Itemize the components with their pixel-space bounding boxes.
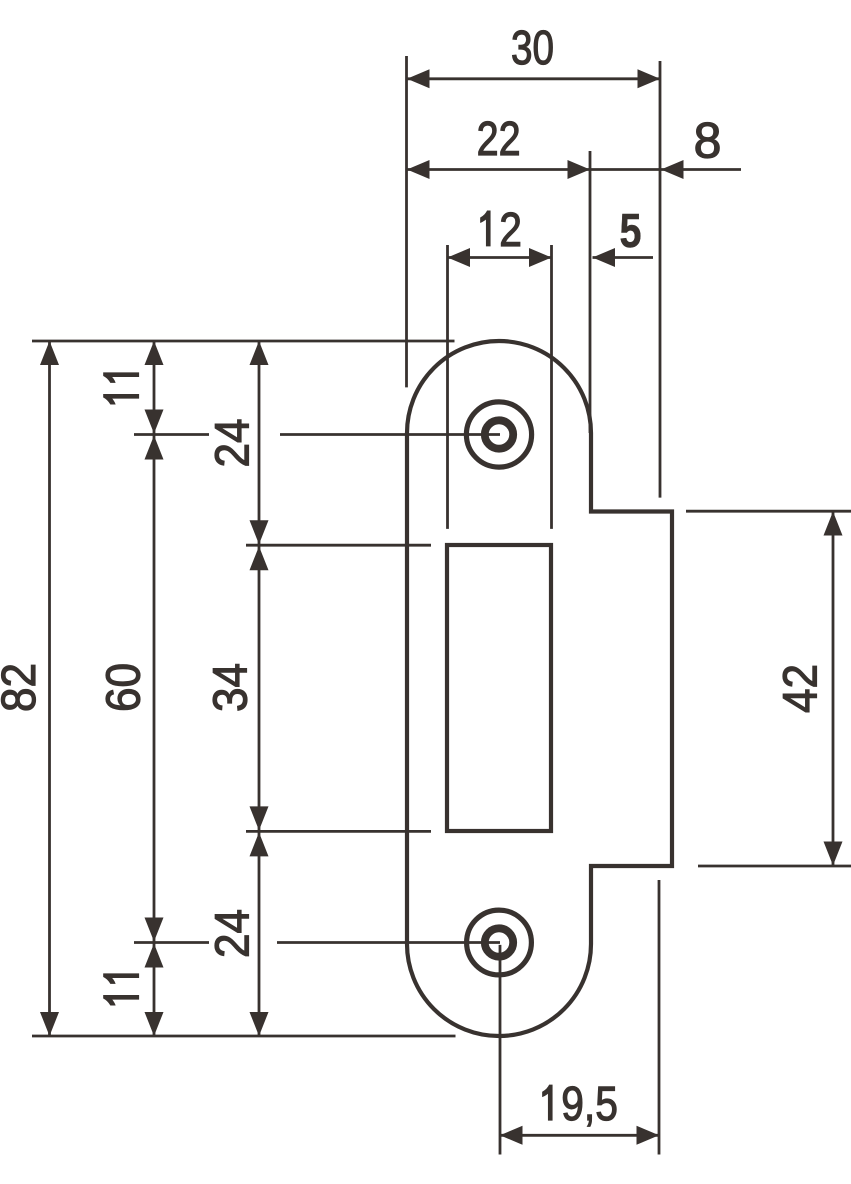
- ext x590: [589, 151, 592, 433]
- label 19,5: [543, 1085, 552, 1120]
- ext x660: [659, 61, 662, 498]
- leader top hole y434.5: [134, 433, 209, 436]
- col 154 arrows: [145, 341, 164, 365]
- svg-text:82: 82: [0, 663, 46, 712]
- cutout: [447, 545, 551, 831]
- dim 42: [832, 511, 835, 866]
- dim 22 + 8: [407, 168, 741, 171]
- 42 up / down: [824, 512, 843, 536]
- svg-text:60: 60: [97, 663, 151, 712]
- 22 left / right: [407, 160, 430, 179]
- ext x551.5: [550, 245, 553, 529]
- label 12: [481, 211, 490, 246]
- svg-text:24: 24: [206, 419, 260, 468]
- ext y511 right: [686, 510, 851, 513]
- svg-text:2: 2: [499, 203, 522, 257]
- svg-text:22: 22: [477, 112, 521, 166]
- 19.5 left / right: [500, 1126, 523, 1145]
- top hole: [466, 402, 531, 467]
- leader bottom hole y942.5: [134, 941, 209, 944]
- label 11 bottom: [104, 974, 139, 1005]
- dim 82: [48, 341, 51, 1036]
- svg-text:42: 42: [774, 664, 828, 713]
- dim 30: [407, 77, 660, 80]
- ext cutout bottom y831: [246, 830, 431, 833]
- label 11 top: [104, 373, 139, 404]
- dim 11/60/11: [153, 341, 156, 1036]
- plate outline: [407, 341, 672, 1036]
- 8 arrow at 660 pointing left: [661, 160, 684, 179]
- dim 5: [593, 256, 654, 259]
- svg-text:34: 34: [204, 663, 258, 712]
- 12 left / right: [448, 248, 471, 267]
- svg-text:8: 8: [694, 113, 722, 169]
- ext cutout top y545: [246, 544, 431, 547]
- ext x407: [405, 56, 408, 387]
- svg-text:30: 30: [511, 21, 554, 75]
- ext y866 right: [698, 865, 851, 868]
- bottom hole: [467, 910, 532, 975]
- ext line bottom y1036: [32, 1035, 456, 1038]
- ext line top y341: [32, 340, 455, 343]
- col 259 arrows: [250, 341, 269, 365]
- svg-text:5: 5: [620, 204, 642, 258]
- 5 arrow at 592.5 pointing left: [593, 248, 616, 267]
- dim 24/34/24: [258, 341, 261, 1036]
- dim 19.5: [500, 1134, 659, 1137]
- 30 left / right: [407, 69, 430, 88]
- dim 12: [448, 256, 552, 259]
- 82 up / down: [40, 341, 59, 365]
- svg-text:9,5: 9,5: [561, 1077, 618, 1131]
- svg-text:24: 24: [206, 909, 260, 958]
- ext x500 bottom: [499, 945, 502, 1155]
- ext x447.5: [446, 245, 449, 529]
- ext x659 bottom: [658, 880, 661, 1155]
